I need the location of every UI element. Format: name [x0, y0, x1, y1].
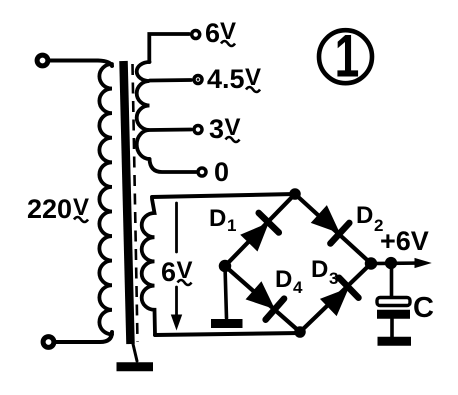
wire bridge top-right arm: [295, 194, 371, 264]
svg-text:6: 6: [205, 18, 220, 48]
dimension arrow 6V: [175, 203, 178, 252]
node bottom: [295, 327, 305, 337]
terminal top-left: [37, 55, 48, 66]
transformer secondary winding 6V: [142, 199, 155, 335]
svg-text:4.5: 4.5: [207, 64, 245, 94]
wire junction to capacitor: [390, 263, 394, 297]
diode D1: [242, 225, 267, 250]
svg-text:D: D: [275, 266, 292, 293]
transformer secondary winding (taps): [137, 62, 150, 159]
node left: [220, 261, 231, 272]
svg-text:+6V: +6V: [380, 226, 429, 256]
wire tap 0: [150, 159, 197, 172]
diode D2: [313, 207, 339, 232]
wire output: [371, 261, 424, 265]
svg-text:D: D: [356, 202, 373, 229]
node top: [290, 189, 300, 199]
svg-text:3: 3: [209, 114, 224, 144]
terminal 3V: [194, 126, 202, 134]
node output junction: [386, 258, 397, 269]
svg-text:220: 220: [27, 194, 72, 224]
terminal 6V: [192, 31, 200, 39]
wire bridge left-top arm: [225, 194, 295, 266]
svg-text:C: C: [413, 292, 434, 324]
svg-text:6: 6: [161, 257, 176, 287]
capacitor C: [377, 298, 410, 306]
ground (bridge left): [211, 319, 243, 328]
svg-text:D: D: [209, 205, 226, 232]
wire left node to ground: [225, 266, 227, 318]
svg-text:1: 1: [335, 23, 360, 90]
transformer core: [124, 61, 131, 344]
terminal 4.5V: [194, 76, 202, 84]
transformer primary winding 220V: [99, 64, 112, 334]
wire secondary top to bridge: [152, 194, 295, 197]
wire tap 4.5V: [150, 78, 191, 82]
core dashed line: [133, 64, 138, 342]
svg-text:0: 0: [214, 157, 229, 187]
wire tap 3V: [150, 128, 191, 132]
wire tap 6V: [149, 34, 189, 62]
wire capacitor to ground: [390, 319, 394, 338]
ground (core): [133, 344, 137, 361]
svg-text:4: 4: [293, 278, 303, 297]
wire primary top: [50, 61, 112, 67]
ground (capacitor): [378, 337, 412, 346]
svg-text:3: 3: [329, 269, 338, 288]
svg-text:D: D: [311, 256, 328, 283]
node right: [366, 258, 377, 269]
diode D3: [322, 290, 347, 315]
wire primary bottom: [56, 332, 112, 342]
diode D4: [247, 283, 273, 307]
terminal 0: [198, 168, 206, 176]
circled figure number 1: [319, 30, 372, 83]
output arrow: [415, 259, 430, 268]
wire secondary bottom to bridge: [155, 333, 300, 335]
svg-text:1: 1: [227, 216, 236, 235]
wire bridge left-bottom arm: [225, 266, 300, 332]
wire bridge bottom-right arm: [300, 264, 371, 333]
terminal bottom-left: [43, 337, 54, 348]
